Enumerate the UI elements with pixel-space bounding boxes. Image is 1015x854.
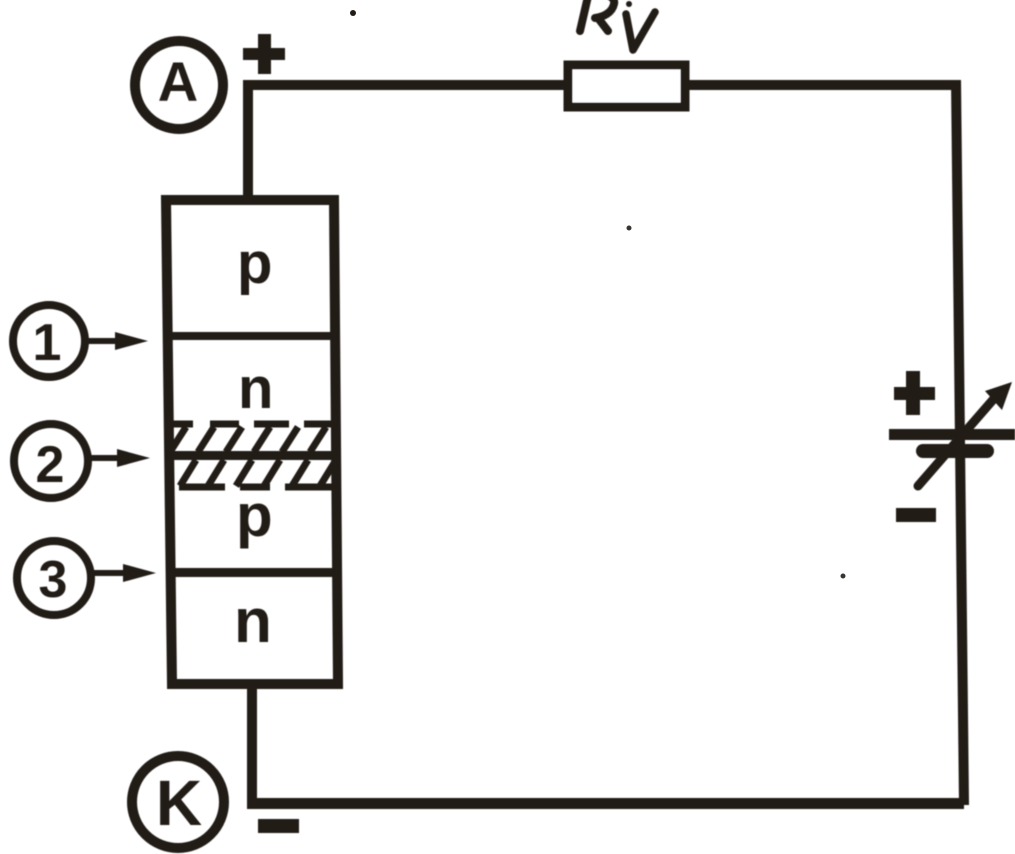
wire: anode vertical from + junction down to pnpn box [243, 80, 253, 202]
scan speck top [350, 10, 356, 16]
junction line 3 (p/n) [170, 568, 338, 577]
junction line 1 (p/n) [167, 332, 335, 340]
arrow from node 1 to junction 1 [88, 332, 148, 350]
wire: right vertical (top-right corner down to bottom wire) [951, 80, 969, 805]
wire: top horizontal left segment (junction to resistor RV) [243, 80, 565, 90]
node 1 circle [13, 305, 85, 377]
wire: top horizontal right segment (resistor to top-right corner) [688, 80, 960, 90]
svg-text:3: 3 [39, 551, 68, 609]
svg-text:A: A [158, 50, 198, 113]
variable source: diagonal arrow [918, 382, 1012, 486]
arrow from node 2 to junction 2 [91, 449, 150, 467]
plus sign of variable source [894, 371, 935, 415]
minus sign (cathode terminal) [258, 819, 299, 833]
depletion region hatching [170, 424, 336, 487]
resistor RV [568, 65, 685, 107]
svg-text:p: p [236, 482, 273, 549]
node 3 circle [17, 541, 91, 615]
node 2 circle [14, 424, 88, 498]
cathode terminal K [132, 756, 224, 848]
minus sign of variable source [896, 508, 936, 522]
svg-text:p: p [237, 231, 272, 296]
svg-text:1: 1 [33, 314, 62, 372]
junction line 2 (middle of depletion band) [169, 451, 337, 460]
ammeter A [135, 41, 223, 129]
label RV [580, 0, 655, 50]
wire: cathode vertical from pnpn box bottom to bottom wire [247, 684, 257, 804]
svg-text:2: 2 [36, 436, 65, 494]
svg-text:n: n [234, 587, 272, 656]
svg-text:n: n [238, 356, 273, 421]
svg-text:K: K [156, 767, 202, 839]
variable source: top plate (long) [889, 429, 1015, 440]
plus sign (anode terminal) [243, 34, 285, 74]
wire: bottom horizontal [247, 798, 964, 809]
scan speck right [841, 574, 846, 579]
variable source: bottom plate (short thick) [916, 444, 994, 458]
scan speck middle [627, 226, 632, 231]
pnpn device outer box [166, 200, 338, 684]
arrow from node 3 to junction 3 [94, 564, 156, 582]
